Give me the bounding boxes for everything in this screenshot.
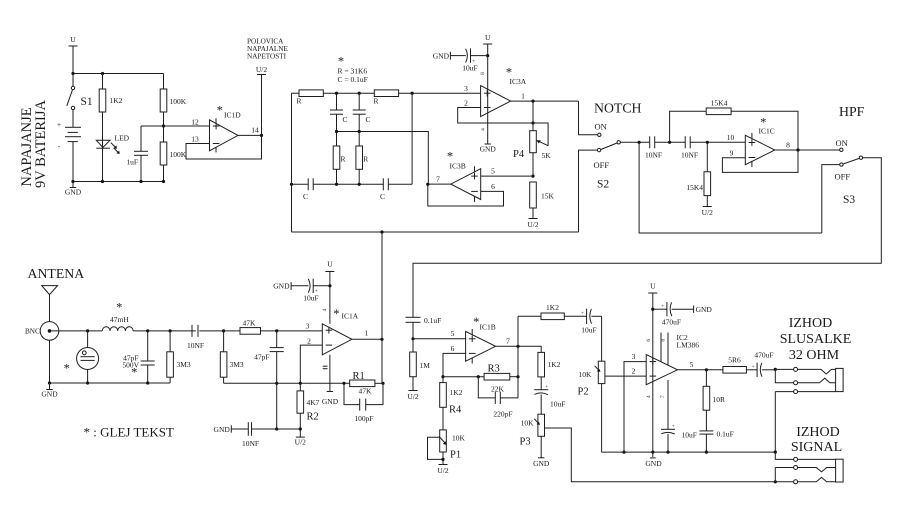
node 47pF shunt top	[275, 329, 278, 332]
node IC1A output	[380, 338, 383, 341]
wire to P2	[601, 316, 603, 361]
svg-text:15K4: 15K4	[711, 99, 728, 108]
node 3M3 first top	[169, 329, 172, 332]
op-amp IC3A	[464, 66, 527, 117]
svg-text:10NF: 10NF	[242, 439, 259, 448]
node R1 right	[381, 382, 384, 385]
node 220pF left	[477, 375, 480, 378]
svg-text:3M3: 3M3	[230, 360, 244, 369]
svg-text:IC1D: IC1D	[224, 111, 241, 120]
svg-text:C: C	[303, 192, 308, 201]
wire IC3A feedback	[458, 101, 533, 123]
svg-text:7: 7	[660, 395, 666, 398]
supply U IC3A	[480, 33, 492, 144]
wire IC3B pin6 feedback	[428, 182, 504, 206]
capacitor 10NF to GND	[214, 422, 301, 448]
node Y2	[358, 183, 361, 186]
node divider mid	[162, 124, 165, 127]
svg-text:IC1A: IC1A	[342, 312, 359, 321]
svg-text:1uF: 1uF	[126, 158, 138, 167]
ground GND antenna	[41, 383, 58, 399]
node bypass junction	[328, 284, 331, 287]
wire ground rail	[73, 181, 164, 183]
svg-text:R: R	[341, 155, 346, 164]
svg-text:*: *	[116, 301, 122, 315]
node R2 bottom	[299, 427, 302, 430]
capacitor 10uF bypass IC3A	[433, 48, 488, 72]
svg-text:NAPETOSTI: NAPETOSTI	[247, 53, 287, 61]
resistor 5R6	[723, 356, 757, 374]
node 47pF top	[146, 329, 149, 332]
antenna symbol	[42, 286, 58, 322]
node pin2 R2	[299, 382, 302, 385]
wire IC1B output	[496, 337, 518, 347]
node IC2 output	[705, 368, 708, 371]
ground P3	[533, 458, 550, 468]
svg-text:13: 13	[191, 135, 199, 144]
svg-text:IC3B: IC3B	[450, 162, 466, 171]
svg-text:GND: GND	[214, 425, 231, 434]
svg-text:3M3: 3M3	[177, 360, 191, 369]
svg-text:2: 2	[307, 337, 311, 346]
node 100K bottom	[162, 180, 165, 183]
jack headphones tip contact	[775, 367, 835, 374]
svg-text:U: U	[650, 282, 656, 291]
wire IC3B output	[428, 175, 451, 185]
svg-text:5: 5	[451, 329, 455, 338]
jack headphones body	[836, 368, 844, 391]
svg-text:8: 8	[480, 72, 486, 75]
svg-text:U: U	[70, 35, 76, 44]
svg-text:GND: GND	[65, 188, 82, 197]
op-amp IC1C	[727, 115, 775, 167]
wire pin 2	[300, 345, 322, 383]
node R1 left	[342, 382, 345, 385]
svg-text:C = 0.1uF: C = 0.1uF	[338, 75, 368, 84]
svg-text:NOTCH: NOTCH	[594, 100, 642, 115]
svg-text:U/2: U/2	[527, 220, 539, 229]
wire pin3 to ground	[624, 352, 646, 452]
wire S1 to battery	[72, 110, 74, 128]
inductor 47mH	[102, 301, 133, 331]
capacitor 100pF	[344, 383, 383, 423]
svg-text:47K: 47K	[243, 319, 257, 328]
wire pin 13 feedback	[186, 135, 262, 160]
terminal U/2 1M	[407, 391, 419, 402]
ground IC3A power	[485, 143, 491, 145]
node twin-T bottom input	[290, 183, 293, 186]
node IC1C output	[796, 148, 799, 151]
wire P3 wiper to signal jack	[545, 428, 776, 482]
svg-text:32 OHM: 32 OHM	[789, 348, 840, 363]
svg-text:*: *	[473, 315, 479, 329]
svg-text:100K: 100K	[170, 97, 187, 106]
svg-text:IC3A: IC3A	[510, 77, 527, 86]
svg-text:4: 4	[480, 128, 486, 131]
svg-text:7: 7	[436, 175, 440, 184]
op-amp IC1D	[210, 103, 242, 152]
capacitor 220pF	[478, 377, 518, 419]
node zobel gnd	[705, 451, 708, 454]
svg-text:GND: GND	[41, 390, 58, 399]
svg-text:R: R	[363, 155, 368, 164]
svg-text:IZHOD: IZHOD	[789, 316, 833, 331]
wire IC1C pin9 feedback	[722, 149, 798, 173]
node LED bottom	[101, 180, 104, 183]
node 1uF bottom	[139, 180, 142, 183]
svg-text:R3: R3	[488, 364, 500, 375]
svg-text:+: +	[661, 304, 664, 310]
svg-text:3: 3	[306, 322, 310, 331]
resistor 47K series	[199, 319, 322, 335]
capacitor C shunt second	[353, 93, 371, 131]
capacitor C series first	[292, 178, 384, 201]
node IC1D output	[260, 134, 263, 137]
resistor 100K upper	[160, 74, 187, 127]
svg-text:S1: S1	[81, 96, 93, 108]
svg-text:OFF: OFF	[835, 172, 851, 182]
svg-text:220pF: 220pF	[493, 410, 512, 419]
svg-text:470uF: 470uF	[662, 318, 681, 327]
wire lower bias line	[224, 382, 301, 384]
potentiometer P4 5K	[513, 123, 551, 176]
wire divider to 1uF	[141, 125, 164, 127]
capacitor 47pF 500V	[122, 331, 154, 383]
capacitor 0.1uF coupling	[406, 316, 442, 339]
svg-text:+: +	[57, 120, 61, 129]
node IC1B pin5 bias	[411, 337, 414, 340]
svg-text:GND: GND	[322, 397, 339, 406]
node notch feed	[380, 230, 383, 233]
svg-text:ON: ON	[595, 122, 607, 132]
capacitor 470uF supply	[653, 302, 713, 327]
node X2	[358, 130, 361, 133]
svg-text:GND: GND	[696, 305, 713, 314]
svg-text:BNC: BNC	[25, 328, 40, 336]
capacitor 10uF bypass IC1A	[273, 279, 330, 303]
svg-text:LM386: LM386	[677, 341, 700, 350]
svg-text:HPF: HPF	[839, 104, 865, 119]
terminal U/2 P1	[437, 465, 449, 476]
node signal junction	[774, 480, 777, 483]
svg-text:3: 3	[464, 84, 468, 93]
svg-text:*: *	[333, 307, 339, 321]
resistor R2 4K7	[297, 383, 320, 429]
wire top rail	[73, 73, 164, 75]
svg-text:1M: 1M	[420, 361, 431, 370]
jack headphones sleeve contact	[775, 390, 835, 453]
svg-text:10uF: 10uF	[581, 326, 596, 335]
svg-text:6: 6	[491, 182, 495, 191]
svg-text:P2: P2	[578, 387, 589, 398]
terminal U/2 R2	[295, 429, 307, 446]
wire BNC to inductor	[51, 330, 102, 332]
svg-text:R: R	[297, 97, 302, 106]
svg-text:ON: ON	[836, 138, 848, 148]
svg-text:U: U	[327, 260, 333, 269]
svg-text:22K: 22K	[491, 385, 505, 394]
svg-text:10R: 10R	[713, 395, 726, 404]
svg-text:5: 5	[690, 360, 694, 369]
wire S2 common	[620, 141, 649, 143]
ground IC1A power	[322, 355, 339, 406]
node Y1	[335, 183, 338, 186]
resistor 15K4 feedback	[670, 99, 798, 151]
battery 9V	[57, 120, 81, 151]
switch S1	[67, 86, 93, 109]
connector BNC	[25, 322, 59, 341]
node S2 common	[638, 141, 641, 144]
svg-text:8: 8	[660, 339, 666, 342]
svg-text:1K2: 1K2	[548, 360, 561, 369]
capacitor 10uF pin7 bypass	[660, 380, 697, 452]
svg-text:0.1uF: 0.1uF	[717, 430, 734, 439]
node IC3A out	[531, 100, 534, 103]
node IC3B output	[426, 183, 429, 186]
svg-text:SLUSALKE: SLUSALKE	[780, 332, 852, 347]
svg-text:U/2: U/2	[256, 65, 268, 74]
capacitor 470uF output	[752, 351, 776, 378]
svg-text:10uF: 10uF	[550, 400, 565, 409]
node 47pF shunt bottom	[275, 427, 278, 430]
text NAPAJANJE 9V BATERIJA	[19, 99, 49, 187]
svg-text:4: 4	[322, 308, 328, 311]
wire inductor to 47K	[133, 330, 196, 332]
supply U IC1A	[322, 260, 334, 324]
wire output to feedback	[381, 339, 383, 383]
resistor 1M	[410, 339, 431, 391]
svg-text:R: R	[374, 97, 379, 106]
svg-text:15K: 15K	[541, 192, 555, 201]
svg-text:C: C	[343, 115, 348, 124]
node twin-T M2	[358, 92, 361, 95]
node supply top rail	[71, 72, 74, 75]
op-amp IC3B (mirrored)	[447, 150, 481, 202]
node 1K2 top	[101, 72, 104, 75]
svg-text:100K: 100K	[170, 150, 187, 159]
svg-text:9: 9	[730, 149, 734, 158]
svg-text:+: +	[581, 311, 584, 317]
jack signal tip contact	[775, 477, 835, 483]
node 47pF bottom	[146, 381, 149, 384]
svg-text:5R6: 5R6	[728, 356, 741, 365]
svg-text:12: 12	[191, 118, 199, 127]
node HPF fb junction	[668, 141, 671, 144]
node X1	[335, 130, 338, 133]
resistor 3M3 second	[220, 331, 244, 383]
switch S3	[835, 138, 863, 206]
node 3M3 second top	[222, 329, 225, 332]
wire pin 12	[164, 118, 210, 127]
jack signal ring contact	[775, 466, 835, 482]
svg-text:2: 2	[632, 367, 636, 376]
switch S2	[594, 122, 621, 191]
resistor 15K4 shunt	[686, 142, 710, 206]
terminal U (battery +)	[69, 35, 78, 74]
jack signal sleeve contact	[775, 452, 835, 461]
capacitor 47pF shunt	[254, 331, 284, 429]
svg-text:6: 6	[451, 344, 455, 353]
svg-text:S2: S2	[597, 179, 609, 191]
svg-text:GND: GND	[645, 459, 662, 468]
resistor R1 47K	[350, 371, 383, 396]
svg-text:0.1uF: 0.1uF	[424, 316, 441, 325]
svg-text:6: 6	[646, 339, 652, 342]
svg-text:LED: LED	[115, 134, 130, 143]
op-amp IC1B	[466, 315, 496, 364]
wire P4 wiper	[533, 123, 548, 146]
svg-text:47mH: 47mH	[110, 315, 129, 324]
wire twin-T output tie	[411, 93, 413, 184]
wire pin 14 output	[238, 126, 262, 136]
svg-text:1K2: 1K2	[546, 303, 559, 312]
svg-text:U: U	[485, 33, 491, 42]
wire P2 wiper to pin2	[605, 367, 646, 377]
svg-text:9V BATERIJA: 9V BATERIJA	[33, 99, 49, 187]
svg-text:1K2: 1K2	[450, 388, 463, 397]
svg-text:5K: 5K	[542, 151, 552, 160]
svg-text:10K: 10K	[521, 419, 535, 428]
wire notch input riser	[291, 93, 293, 232]
wire IC1C output	[775, 141, 840, 151]
svg-text:10uF: 10uF	[303, 294, 318, 303]
wire IC3B pin5	[481, 167, 533, 177]
svg-text:47pF: 47pF	[254, 353, 269, 362]
node HPF mid junction	[706, 141, 709, 144]
svg-text:U/2: U/2	[437, 466, 449, 475]
wire bypass to S3 OFF	[822, 165, 840, 233]
resistor R twin-T first	[292, 90, 375, 106]
node ground bus left	[48, 381, 51, 384]
svg-text:ANTENA: ANTENA	[28, 266, 85, 281]
resistor 3M3 first	[167, 331, 191, 383]
svg-text:10: 10	[727, 133, 735, 142]
svg-text:P4: P4	[513, 149, 525, 160]
node 47pF shunt bias	[275, 382, 278, 385]
svg-text:GND: GND	[480, 145, 497, 154]
svg-text:U/2: U/2	[407, 392, 419, 401]
capacitor 10NF HPF second	[681, 136, 745, 159]
node pin3 gnd	[622, 451, 625, 454]
resistor 15K	[530, 182, 555, 219]
svg-text:2: 2	[464, 99, 468, 108]
resistor R shunt second	[356, 132, 368, 185]
svg-text:R1: R1	[353, 371, 365, 382]
node ground bus jacks	[774, 451, 777, 454]
surge arrester	[64, 331, 99, 383]
resistor R twin-T second	[374, 90, 481, 106]
svg-text:R2: R2	[307, 412, 319, 423]
svg-text:10K: 10K	[579, 370, 593, 379]
ground GND battery	[65, 182, 82, 197]
node R3 right	[516, 375, 519, 378]
text notch values	[338, 55, 368, 85]
svg-text:IZHOD: IZHOD	[796, 425, 840, 440]
svg-text:+: +	[752, 364, 755, 370]
op-amp IC2 LM386	[646, 333, 699, 385]
wire R1 line	[300, 382, 349, 384]
wire output up to notch line	[381, 232, 383, 339]
LED	[96, 134, 129, 182]
node IC3B pin5	[531, 175, 534, 178]
svg-text:10uF: 10uF	[682, 431, 697, 440]
svg-text:3: 3	[632, 352, 636, 361]
svg-text:1: 1	[365, 329, 369, 338]
resistor 1K2	[99, 74, 122, 141]
wire battery to ground rail	[72, 142, 74, 182]
potentiometer P3 10K	[520, 414, 545, 458]
svg-text:4: 4	[646, 395, 652, 398]
wire pin5	[413, 329, 466, 339]
svg-text:GND: GND	[533, 459, 550, 468]
node ground rail left	[71, 180, 74, 183]
op-amp IC1A	[306, 307, 359, 355]
svg-text:GND: GND	[433, 52, 450, 61]
svg-text:100pF: 100pF	[354, 414, 373, 423]
svg-text:1: 1	[521, 92, 525, 101]
svg-text:10uF: 10uF	[462, 64, 477, 73]
svg-text:C: C	[366, 115, 371, 124]
svg-text:8: 8	[786, 141, 790, 150]
wire S3 common to output bus	[413, 158, 881, 318]
wire output riser	[517, 316, 519, 398]
svg-text:14: 14	[251, 126, 259, 135]
capacitor 10uF interstage	[581, 309, 602, 335]
svg-text:+: +	[672, 423, 675, 429]
svg-text:470uF: 470uF	[754, 351, 773, 360]
wire pin6	[443, 344, 466, 377]
svg-text:P3: P3	[520, 437, 531, 448]
wire U to S1	[72, 74, 74, 87]
node twin-T output top	[411, 92, 414, 95]
terminal U/2 (half supply out)	[256, 65, 268, 135]
node 470uF junction	[651, 308, 654, 311]
capacitor 1uF	[126, 126, 148, 182]
text IZHOD SLUSALKE 32 OHM	[780, 316, 852, 363]
svg-text:10NF: 10NF	[645, 151, 662, 160]
node P1 bottom	[441, 458, 444, 461]
svg-text:GND: GND	[273, 282, 290, 291]
wire ground bus	[602, 451, 776, 453]
svg-text:47K: 47K	[359, 387, 373, 396]
svg-text:S3: S3	[843, 194, 855, 206]
svg-text:4K7: 4K7	[307, 398, 320, 407]
capacitor 10uF monitor	[534, 384, 565, 414]
wire antenna ground bus	[50, 382, 171, 384]
text IZHOD SIGNAL	[791, 425, 842, 455]
svg-text:15K4: 15K4	[686, 183, 703, 192]
wire IC3A output	[511, 92, 579, 102]
jack signal body	[836, 459, 844, 482]
wire IC3A out to S2 ON	[579, 101, 598, 135]
potentiometer P2 10K	[578, 361, 605, 452]
potentiometer P1 10K	[428, 430, 466, 465]
wire notch input line	[292, 231, 579, 233]
capacitor 10NF input	[187, 325, 204, 350]
jack headphones ring contact	[775, 369, 835, 384]
node IC3A bypass junction	[486, 54, 489, 57]
node P4 top junction	[531, 121, 534, 124]
svg-text:10NF: 10NF	[187, 341, 204, 350]
wire shunt node X	[337, 132, 429, 185]
node arrester top	[86, 329, 89, 332]
svg-text:*: *	[131, 366, 137, 380]
svg-text:+: +	[545, 384, 548, 390]
wire BNC shield to ground	[49, 340, 51, 383]
terminal U/2 15K	[527, 219, 539, 230]
svg-text:*: *	[64, 361, 70, 375]
svg-text:1K2: 1K2	[110, 96, 123, 105]
